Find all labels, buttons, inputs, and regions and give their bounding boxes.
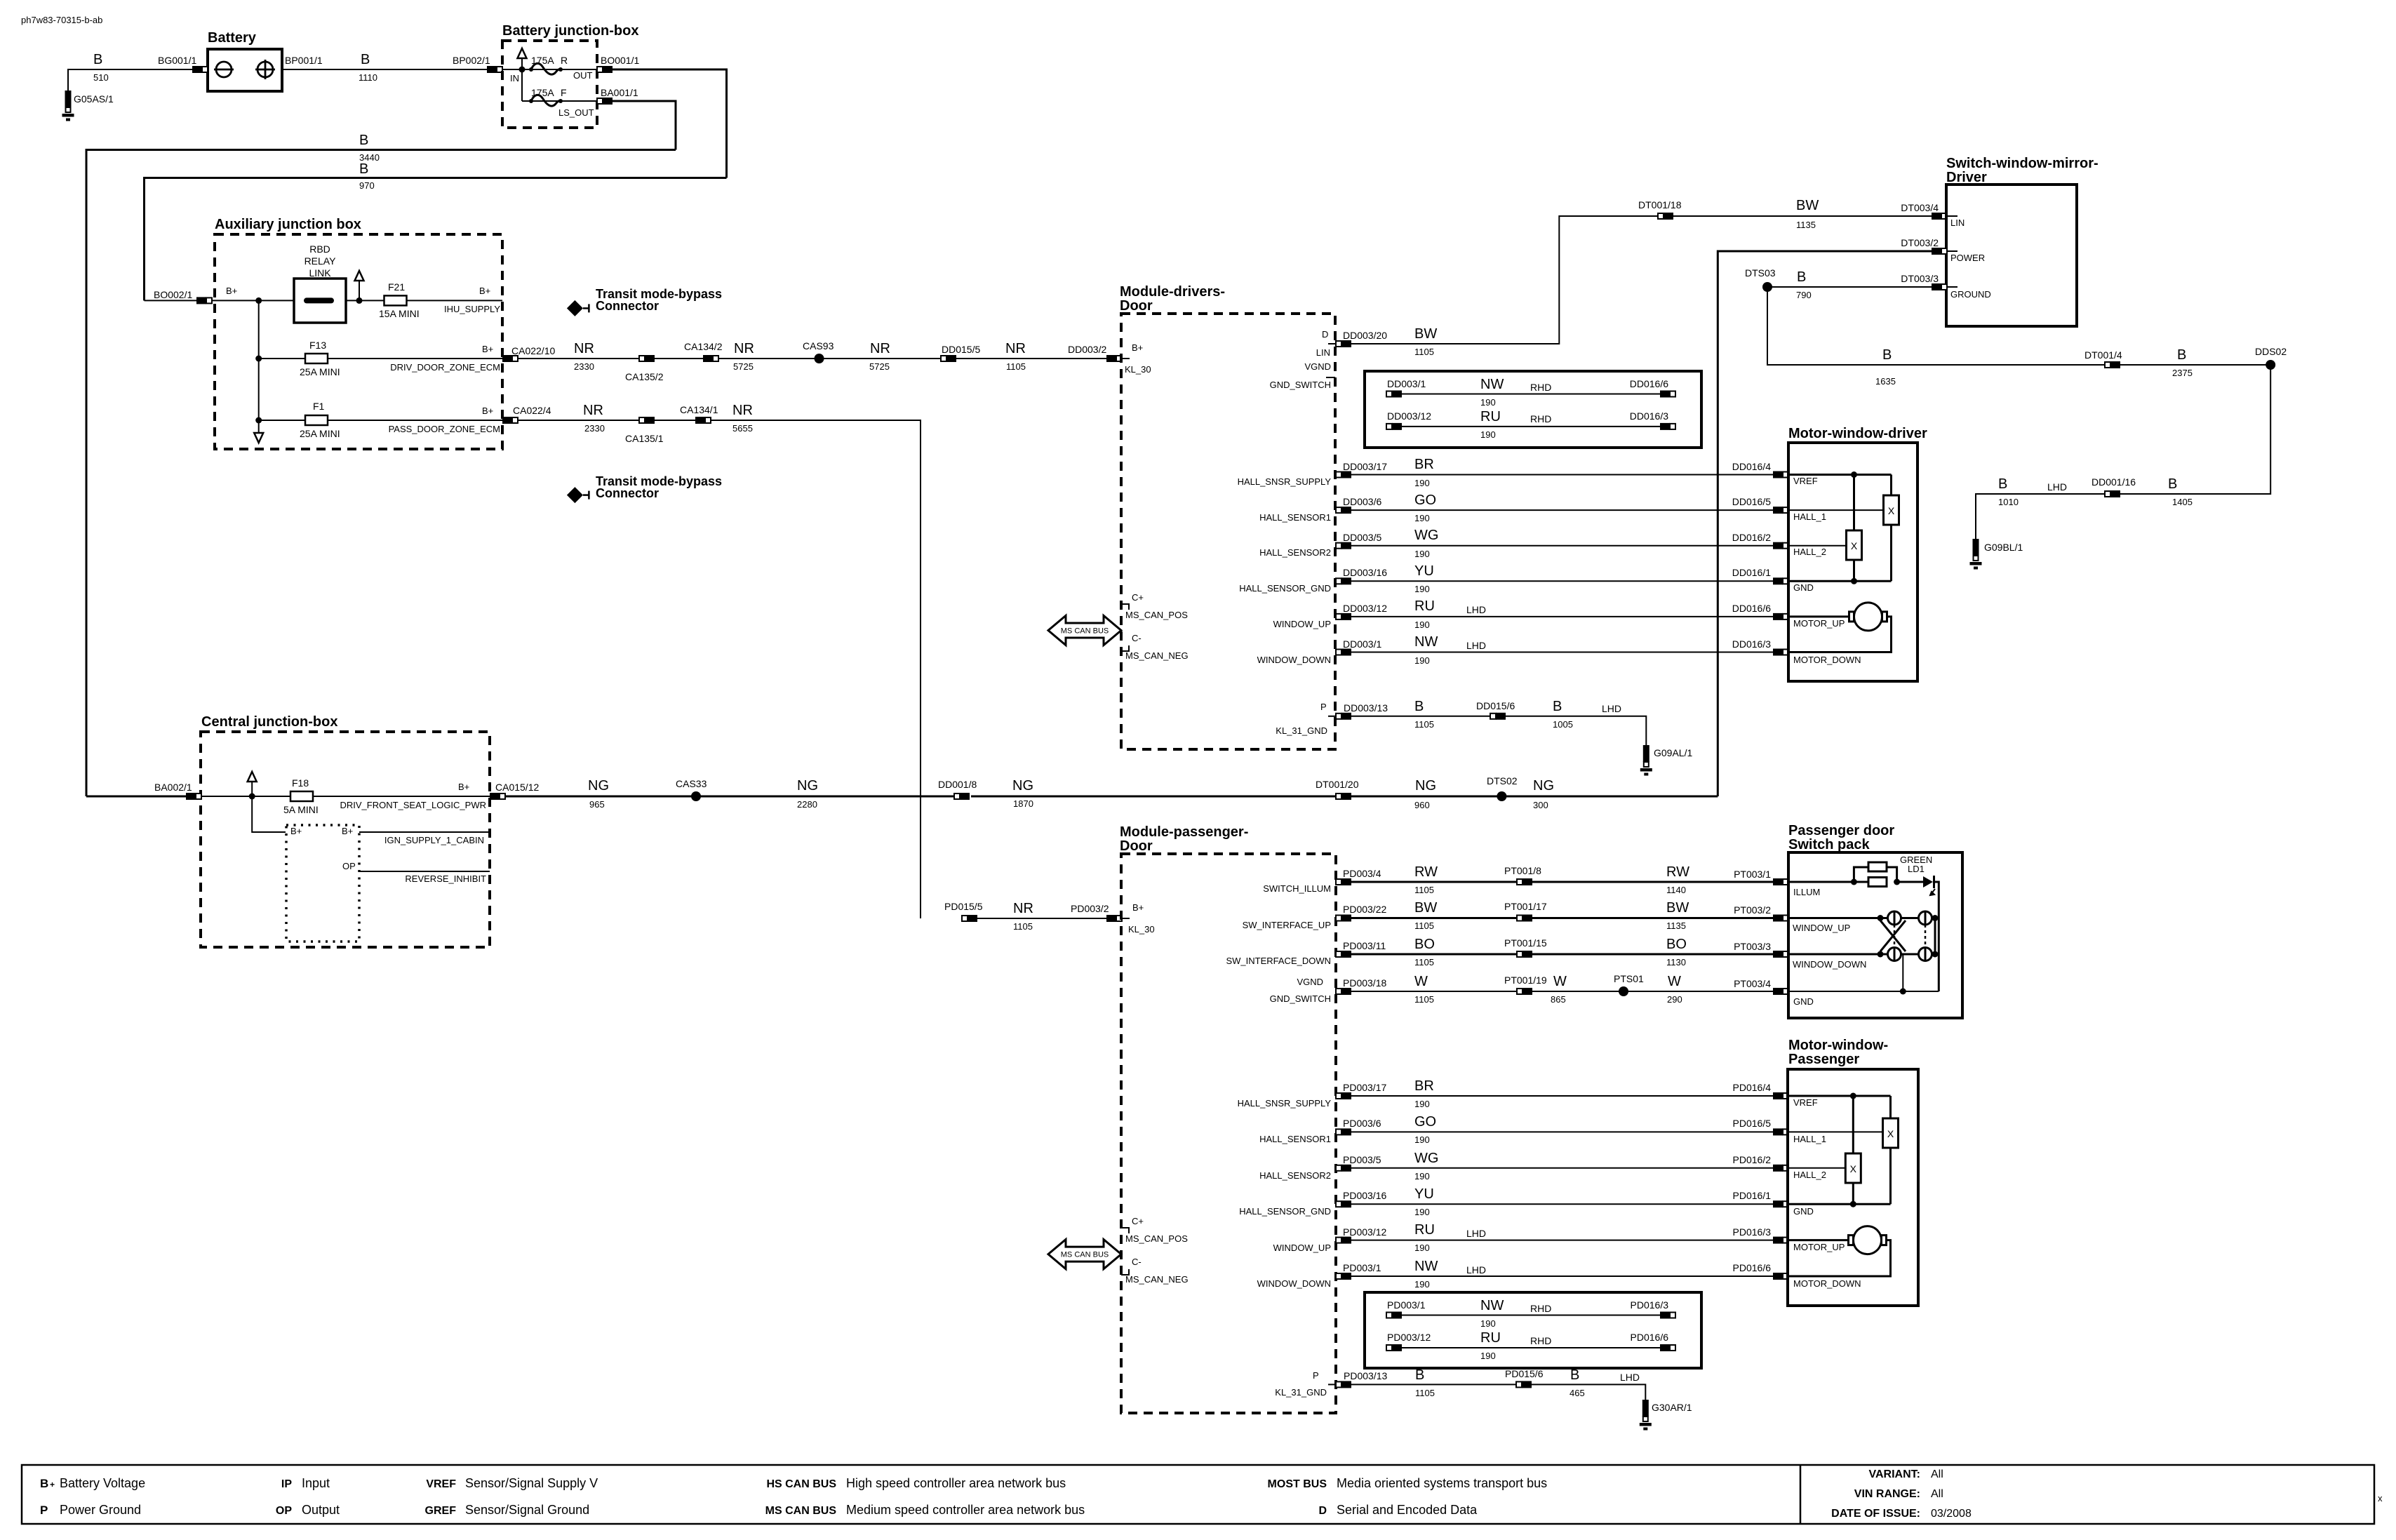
svg-text:ILLUM: ILLUM xyxy=(1793,887,1820,897)
svg-text:D: D xyxy=(1318,1505,1327,1517)
svg-text:LHD: LHD xyxy=(1466,640,1486,651)
svg-text:BP001/1: BP001/1 xyxy=(285,55,323,66)
svg-text:PD016/3: PD016/3 xyxy=(1733,1226,1772,1238)
svg-text:NG: NG xyxy=(1415,778,1436,794)
motor symbol passenger xyxy=(1849,1226,1887,1254)
wire B+ stub into pass module xyxy=(1122,918,1130,919)
svg-text:25A MINI: 25A MINI xyxy=(300,366,340,377)
node down-right xyxy=(1932,951,1939,958)
svg-text:DD003/12: DD003/12 xyxy=(1387,410,1431,422)
wire KL31 stub xyxy=(1328,716,1336,717)
wire RW 1140 xyxy=(1532,881,1773,883)
module-passenger-door dashed outline xyxy=(1121,854,1336,1413)
svg-text:IP: IP xyxy=(281,1478,292,1490)
svg-text:R: R xyxy=(561,55,568,66)
svg-text:1135: 1135 xyxy=(1666,920,1686,931)
svg-text:PTS01: PTS01 xyxy=(1614,973,1644,984)
connector PD016/6 xyxy=(1773,1273,1788,1280)
svg-text:190: 190 xyxy=(1414,620,1430,630)
svg-text:LD1: LD1 xyxy=(1908,864,1925,874)
hall sensor X1 pass xyxy=(1883,1118,1899,1148)
connector PT003/4 xyxy=(1773,988,1788,995)
svg-text:PT003/1: PT003/1 xyxy=(1734,869,1771,880)
svg-text:1405: 1405 xyxy=(2172,497,2193,507)
pin tick C+ pass xyxy=(1121,1228,1129,1233)
connector DD003/1 rhd xyxy=(1386,391,1402,398)
svg-text:NR: NR xyxy=(1005,341,1026,356)
motor-window-driver box xyxy=(1788,443,1918,681)
svg-text:LHD: LHD xyxy=(1466,1264,1486,1275)
wire BO001/1 out to right and down xyxy=(612,69,727,178)
svg-text:MS CAN BUS: MS CAN BUS xyxy=(765,1505,837,1517)
svg-text:WG: WG xyxy=(1414,528,1438,543)
svg-text:OP: OP xyxy=(342,861,356,871)
svg-text:KL_31_GND: KL_31_GND xyxy=(1276,725,1327,736)
pass row1 connector PD003/4 xyxy=(1336,878,1351,885)
connector PD003/1 rhd xyxy=(1386,1312,1402,1319)
connector PD016/4 xyxy=(1773,1092,1788,1099)
svg-text:VREF: VREF xyxy=(1793,476,1818,486)
svg-text:MS_CAN_POS: MS_CAN_POS xyxy=(1125,610,1188,620)
svg-text:C-: C- xyxy=(1132,633,1142,643)
svg-text:WINDOW_DOWN: WINDOW_DOWN xyxy=(1257,1278,1331,1289)
svg-text:VGND: VGND xyxy=(1297,977,1323,987)
ganged link dashed 1 xyxy=(1894,925,1896,947)
svg-text:15A MINI: 15A MINI xyxy=(379,308,420,319)
svg-text:PD003/13: PD003/13 xyxy=(1344,1370,1387,1381)
svg-text:F1: F1 xyxy=(313,401,325,412)
wire LED to right rail xyxy=(1934,882,1939,991)
svg-text:BO002/1: BO002/1 xyxy=(154,289,192,300)
svg-text:Battery: Battery xyxy=(208,30,257,46)
svg-text:B+: B+ xyxy=(1132,902,1144,913)
pass row2 connector PD003/22 xyxy=(1336,915,1351,922)
fuse F21 xyxy=(384,295,407,305)
svg-text:B: B xyxy=(2177,347,2186,363)
svg-text:F13: F13 xyxy=(309,340,326,351)
svg-text:GO: GO xyxy=(1414,1114,1436,1130)
svg-text:B: B xyxy=(1998,476,2007,492)
svg-text:OUT: OUT xyxy=(573,70,593,81)
svg-text:RHD: RHD xyxy=(1530,413,1551,424)
svg-text:190: 190 xyxy=(1414,549,1430,559)
svg-text:PD003/1: PD003/1 xyxy=(1387,1299,1426,1311)
svg-text:190: 190 xyxy=(1414,1171,1430,1181)
svg-text:PD016/2: PD016/2 xyxy=(1733,1154,1772,1165)
svg-text:VGND: VGND xyxy=(1304,361,1331,372)
node GND junction xyxy=(1851,578,1857,584)
svg-text:PD003/1: PD003/1 xyxy=(1343,1262,1381,1273)
wire BO 1130 xyxy=(1532,953,1773,956)
connector PD016/1 xyxy=(1773,1200,1788,1207)
svg-text:1105: 1105 xyxy=(1414,957,1434,967)
svg-text:POWER: POWER xyxy=(1950,253,1985,263)
svg-text:WINDOW_DOWN: WINDOW_DOWN xyxy=(1793,959,1866,970)
svg-text:DRIV_DOOR_ZONE_ECM: DRIV_DOOR_ZONE_ECM xyxy=(390,362,500,373)
svg-text:PD003/11: PD003/11 xyxy=(1343,940,1386,951)
svg-text:1105: 1105 xyxy=(1414,719,1434,730)
svg-text:1130: 1130 xyxy=(1666,957,1686,967)
svg-text:190: 190 xyxy=(1414,1207,1430,1217)
svg-text:GND: GND xyxy=(1793,996,1814,1007)
svg-text:PD016/4: PD016/4 xyxy=(1733,1082,1772,1093)
svg-text:1140: 1140 xyxy=(1666,885,1686,895)
svg-text:NR: NR xyxy=(583,403,603,418)
wire GND internal pass xyxy=(1788,1203,1891,1205)
svg-text:1105: 1105 xyxy=(1414,347,1434,357)
wire B+ stub into driver module xyxy=(1122,358,1130,359)
switch cross link2 xyxy=(1880,920,1906,951)
svg-text:F: F xyxy=(561,87,567,98)
svg-text:GND_SWITCH: GND_SWITCH xyxy=(1270,993,1331,1004)
wire below X1 pass xyxy=(1889,1148,1892,1204)
svg-text:LHD: LHD xyxy=(1602,703,1621,714)
svg-text:All: All xyxy=(1931,1468,1943,1480)
svg-text:VREF: VREF xyxy=(1793,1097,1818,1108)
battery positive terminal xyxy=(255,60,275,79)
wire NW RHD xyxy=(1402,394,1660,395)
svg-text:PT003/4: PT003/4 xyxy=(1734,978,1771,989)
svg-text:B: B xyxy=(359,133,368,148)
svg-text:1110: 1110 xyxy=(359,72,377,83)
wire YU 190 pass xyxy=(1351,1203,1773,1205)
wire BO002/1 feed xyxy=(145,300,197,301)
svg-text:G09BL/1: G09BL/1 xyxy=(1984,542,2023,553)
wire aux row2 DRIV xyxy=(259,358,502,359)
svg-text:NG: NG xyxy=(797,778,818,794)
svg-text:BG001/1: BG001/1 xyxy=(158,55,196,66)
svg-text:W: W xyxy=(1414,974,1428,989)
ground G30AR/1 xyxy=(1640,1400,1652,1431)
svg-text:1105: 1105 xyxy=(1414,994,1434,1005)
wire BW 1105 pass xyxy=(1351,917,1517,919)
svg-text:25A MINI: 25A MINI xyxy=(300,428,340,439)
svg-text:DTS02: DTS02 xyxy=(1487,775,1518,786)
svg-text:1135: 1135 xyxy=(1796,220,1816,230)
svg-text:PT003/2: PT003/2 xyxy=(1734,904,1771,916)
svg-text:HALL_SENSOR2: HALL_SENSOR2 xyxy=(1259,1170,1331,1181)
svg-text:DD003/13: DD003/13 xyxy=(1344,702,1388,714)
wire B 1105 driver gnd xyxy=(1351,716,1490,717)
up arrow central xyxy=(248,772,257,796)
svg-text:PD003/12: PD003/12 xyxy=(1387,1332,1431,1343)
svg-text:300: 300 xyxy=(1533,800,1548,810)
svg-text:REVERSE_INHIBIT: REVERSE_INHIBIT xyxy=(405,873,486,884)
ground G09BL/1 xyxy=(1970,539,1982,570)
svg-text:B+: B+ xyxy=(482,344,493,354)
connector DD001/16 xyxy=(2105,490,2120,497)
wire NG 300 xyxy=(1501,796,1718,798)
connector BP002/1 xyxy=(487,66,502,73)
switch right rail xyxy=(1934,918,1936,955)
connector PD016/5 xyxy=(1773,1128,1788,1135)
splice DTS02 xyxy=(1497,791,1506,801)
wire MOTOR_DOWN internal pass xyxy=(1788,1240,1891,1276)
svg-text:B: B xyxy=(1570,1367,1579,1383)
wire RW 1105 xyxy=(1351,881,1517,883)
wire VREF internal pass xyxy=(1788,1095,1891,1097)
connector PD003/13 xyxy=(1336,1381,1351,1388)
resistor bypass loop xyxy=(1854,867,1868,882)
svg-text:G09AL/1: G09AL/1 xyxy=(1654,747,1692,758)
wire BA002/1 feed xyxy=(86,796,186,798)
svg-text:IGN_SUPPLY_1_CABIN: IGN_SUPPLY_1_CABIN xyxy=(384,835,484,845)
svg-text:P: P xyxy=(40,1504,48,1517)
svg-text:GREF: GREF xyxy=(425,1505,457,1517)
svg-text:CA022/4: CA022/4 xyxy=(513,405,551,416)
svg-text:MOST BUS: MOST BUS xyxy=(1268,1478,1327,1490)
wire vertical hall2 chain xyxy=(1853,475,1855,531)
svg-text:NG: NG xyxy=(588,778,609,794)
battery BT1 box xyxy=(208,49,282,91)
pass row4 connector PD003/18 xyxy=(1336,988,1351,995)
svg-text:RW: RW xyxy=(1666,864,1689,880)
connector DD016/3 rhd xyxy=(1660,423,1675,430)
pin stub LIN xyxy=(1947,215,1957,217)
transit mode-bypass connector 2 xyxy=(567,487,589,503)
svg-text:DD016/1: DD016/1 xyxy=(1732,567,1771,578)
driver row6 NW: connector DD003/1 xyxy=(1336,649,1351,656)
wire DTS03 drop to B1635 xyxy=(1767,287,2105,365)
pass row q4 YU: connector PD003/16 xyxy=(1336,1200,1351,1207)
svg-text:CA135/2: CA135/2 xyxy=(625,371,664,382)
wire NR mid pass xyxy=(655,420,695,421)
svg-text:190: 190 xyxy=(1414,655,1430,666)
svg-text:BW: BW xyxy=(1414,900,1437,916)
contact down-2 xyxy=(1919,948,1932,961)
wire B 510 battery to ground xyxy=(68,69,208,91)
svg-text:B: B xyxy=(2168,476,2177,492)
wire KL31 stub pass xyxy=(1328,1384,1336,1385)
svg-text:2330: 2330 xyxy=(574,361,594,372)
svg-text:Door: Door xyxy=(1120,838,1153,854)
svg-text:PT001/15: PT001/15 xyxy=(1504,937,1547,949)
svg-text:Input: Input xyxy=(302,1476,330,1490)
wire NR 5655 pass to drop xyxy=(711,420,921,918)
svg-text:MOTOR_DOWN: MOTOR_DOWN xyxy=(1793,655,1861,665)
wire BJB row2 drop xyxy=(521,69,523,101)
svg-text:LHD: LHD xyxy=(1620,1372,1640,1383)
svg-text:DD003/6: DD003/6 xyxy=(1343,496,1381,507)
connector DD016/2 xyxy=(1773,542,1788,549)
connector BO002/1 xyxy=(196,297,212,304)
svg-text:DD016/3: DD016/3 xyxy=(1732,638,1771,650)
svg-text:Switch pack: Switch pack xyxy=(1788,837,1870,852)
legend divider xyxy=(1800,1465,1802,1524)
splice CAS33 xyxy=(691,791,701,801)
svg-text:PD016/6: PD016/6 xyxy=(1733,1262,1772,1273)
connector CA015/12 xyxy=(490,793,505,800)
svg-text:DT003/3: DT003/3 xyxy=(1901,273,1939,284)
svg-text:BO: BO xyxy=(1666,937,1687,952)
svg-text:Module-drivers-: Module-drivers- xyxy=(1120,284,1225,300)
svg-text:DDS02: DDS02 xyxy=(2255,346,2287,357)
connector DD016/6 rhd xyxy=(1660,391,1675,398)
wire NG 960 xyxy=(1351,796,1501,798)
svg-text:BR: BR xyxy=(1414,1078,1434,1094)
wire B 790 to GROUND xyxy=(1767,286,1932,288)
svg-text:CA022/10: CA022/10 xyxy=(511,345,555,356)
svg-text:HS CAN BUS: HS CAN BUS xyxy=(766,1478,836,1490)
connector DD015/5 xyxy=(941,355,956,362)
svg-text:HALL_SNSR_SUPPLY: HALL_SNSR_SUPPLY xyxy=(1238,476,1332,487)
node up-left xyxy=(1878,915,1884,921)
svg-text:P: P xyxy=(1313,1370,1319,1381)
wire WINDOW_DOWN internal xyxy=(1788,953,1935,956)
svg-text:5A MINI: 5A MINI xyxy=(283,804,319,815)
wire BR 190 xyxy=(1351,474,1773,476)
svg-text:HALL_1: HALL_1 xyxy=(1793,511,1826,522)
svg-text:B: B xyxy=(1553,699,1562,714)
connector DT003/3 xyxy=(1932,283,1947,290)
wire B 2375 xyxy=(2120,364,2270,366)
svg-text:PD016/3: PD016/3 xyxy=(1631,1299,1669,1311)
connector PT001/17 xyxy=(1517,915,1532,922)
svg-text:MS_CAN_POS: MS_CAN_POS xyxy=(1125,1233,1188,1244)
fuse F13 xyxy=(305,354,328,363)
svg-text:190: 190 xyxy=(1414,1099,1430,1109)
svg-text:190: 190 xyxy=(1414,513,1430,523)
switch output drop xyxy=(1902,954,1903,991)
wire into dotted relay box xyxy=(252,796,286,832)
svg-text:OP: OP xyxy=(276,1505,292,1517)
svg-text:NR: NR xyxy=(732,403,753,418)
svg-text:BO: BO xyxy=(1414,937,1435,952)
svg-text:RHD: RHD xyxy=(1530,1303,1551,1314)
svg-text:F18: F18 xyxy=(292,777,309,789)
svg-text:NR: NR xyxy=(870,341,890,356)
wire YU 190 xyxy=(1351,580,1773,582)
up arrow relay xyxy=(355,271,364,300)
svg-text:175A: 175A xyxy=(531,87,554,98)
connector PT003/3 xyxy=(1773,951,1788,958)
svg-text:865: 865 xyxy=(1551,994,1566,1005)
wire BW 1105 xyxy=(1351,216,1658,344)
svg-text:Motor-window-: Motor-window- xyxy=(1788,1038,1888,1053)
hall sensor X2 driver xyxy=(1847,530,1862,560)
svg-text:MS_CAN_NEG: MS_CAN_NEG xyxy=(1125,1274,1189,1285)
wire NR 2330 driver xyxy=(518,358,639,359)
svg-text:NW: NW xyxy=(1414,1259,1438,1274)
wire B 1110 battery to BJB xyxy=(282,69,502,70)
wire POWER vertical from NG xyxy=(1718,251,1932,796)
svg-text:RW: RW xyxy=(1414,864,1438,880)
fuse F1 xyxy=(305,415,328,425)
switch cross link1 xyxy=(1880,920,1906,951)
svg-text:High speed controller area net: High speed controller area network bus xyxy=(846,1476,1066,1490)
svg-text:YU: YU xyxy=(1414,563,1434,579)
wire MOTOR_UP internal xyxy=(1788,615,1849,617)
svg-text:B: B xyxy=(1414,699,1424,714)
svg-text:MS_CAN_NEG: MS_CAN_NEG xyxy=(1125,650,1189,661)
wire B 465 pass gnd xyxy=(1532,1384,1645,1400)
connector PT003/2 xyxy=(1773,915,1788,922)
svg-text:PT001/8: PT001/8 xyxy=(1504,865,1541,876)
svg-text:190: 190 xyxy=(1480,1351,1496,1361)
svg-text:PD016/6: PD016/6 xyxy=(1631,1332,1669,1343)
connector DD003/2 xyxy=(1106,355,1122,362)
wire inside BJB row1 xyxy=(502,69,597,70)
svg-text:C+: C+ xyxy=(1132,592,1144,603)
svg-text:Medium speed controller area n: Medium speed controller area network bus xyxy=(846,1503,1085,1517)
connector DD016/6 xyxy=(1773,613,1788,620)
svg-text:DD015/6: DD015/6 xyxy=(1476,700,1515,711)
svg-text:HALL_2: HALL_2 xyxy=(1793,1170,1826,1180)
svg-text:NG: NG xyxy=(1012,778,1033,794)
pin stub POWER xyxy=(1947,250,1957,252)
battery negative terminal xyxy=(214,62,234,77)
svg-text:C-: C- xyxy=(1132,1257,1142,1267)
node junction F13 branch xyxy=(255,356,262,362)
svg-text:DD016/3: DD016/3 xyxy=(1630,410,1668,422)
svg-text:PD003/4: PD003/4 xyxy=(1343,868,1381,879)
svg-text:VARIANT:: VARIANT: xyxy=(1869,1468,1920,1480)
svg-text:DD003/17: DD003/17 xyxy=(1343,461,1387,472)
svg-text:790: 790 xyxy=(1796,290,1812,300)
wire to LED xyxy=(1897,881,1923,883)
svg-text:B+: B+ xyxy=(1132,342,1143,353)
svg-text:PD003/6: PD003/6 xyxy=(1343,1118,1381,1129)
svg-text:Passenger: Passenger xyxy=(1788,1052,1859,1067)
svg-text:VIN RANGE:: VIN RANGE: xyxy=(1854,1488,1920,1500)
svg-text:IHU_SUPPLY: IHU_SUPPLY xyxy=(444,304,500,314)
svg-text:NW: NW xyxy=(1480,1298,1504,1313)
hall sensor X2 pass xyxy=(1845,1153,1861,1183)
svg-text:B: B xyxy=(93,52,102,67)
wire B 3440 horizontal xyxy=(86,150,676,797)
driver row3 WG: connector DD003/5 xyxy=(1336,542,1351,549)
svg-text:IN: IN xyxy=(510,73,519,83)
svg-text:LHD: LHD xyxy=(2047,481,2067,493)
wire ILLUM internal xyxy=(1788,881,1868,883)
wire GO 190 pass xyxy=(1351,1131,1773,1132)
wire NR 1105 pass feed xyxy=(977,918,1106,919)
RHD sub-box passenger xyxy=(1365,1292,1701,1368)
wire NR mid driver xyxy=(655,358,703,359)
svg-text:RU: RU xyxy=(1414,1222,1435,1238)
wire BR 190 pass xyxy=(1351,1095,1773,1097)
svg-text:DT001/4: DT001/4 xyxy=(2084,349,2122,361)
svg-text:Sensor/Signal Supply V: Sensor/Signal Supply V xyxy=(465,1476,598,1490)
svg-text:1635: 1635 xyxy=(1875,376,1896,387)
connector PT001/19 xyxy=(1517,988,1532,995)
node junction BJB xyxy=(519,67,526,73)
svg-text:+: + xyxy=(50,1480,55,1489)
svg-text:Passenger door: Passenger door xyxy=(1788,823,1894,838)
transit mode-bypass connector 1 xyxy=(567,300,589,316)
pass row q6 NW: connector PD003/1 xyxy=(1336,1273,1351,1280)
node junction central B+ xyxy=(249,794,255,800)
pass row q5 RU: connector PD003/12 xyxy=(1336,1237,1351,1244)
connector DT001/4 xyxy=(2105,361,2120,368)
motor symbol driver xyxy=(1849,603,1887,631)
wire NR 2330 pass xyxy=(518,420,639,421)
svg-text:LIN: LIN xyxy=(1316,347,1330,358)
wire HALL_1 internal pass xyxy=(1788,1131,1883,1132)
connector DD003/12 rhd xyxy=(1386,423,1402,430)
svg-text:Battery junction-box: Battery junction-box xyxy=(502,23,638,39)
svg-text:190: 190 xyxy=(1414,478,1430,488)
svg-text:CA135/1: CA135/1 xyxy=(625,433,664,444)
svg-text:GROUND: GROUND xyxy=(1950,289,1991,300)
connector CA134/2 xyxy=(703,355,718,362)
wire NW RHD pass xyxy=(1402,1315,1660,1316)
svg-text:PT001/17: PT001/17 xyxy=(1504,901,1547,912)
svg-text:03/2008: 03/2008 xyxy=(1931,1508,1972,1520)
svg-text:RU: RU xyxy=(1480,409,1501,424)
svg-text:GND: GND xyxy=(1793,1206,1814,1217)
svg-text:190: 190 xyxy=(1414,1134,1430,1145)
